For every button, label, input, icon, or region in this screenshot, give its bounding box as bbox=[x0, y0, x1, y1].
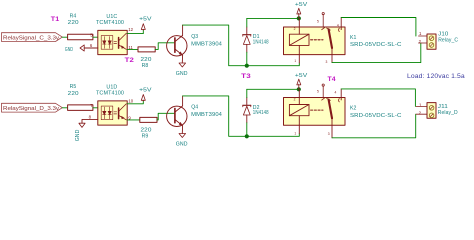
svg-text:GND: GND bbox=[65, 47, 73, 53]
svg-text:+5V: +5V bbox=[295, 2, 308, 8]
junction dot D1 anode bbox=[245, 64, 249, 68]
svg-text:2: 2 bbox=[294, 98, 296, 102]
svg-text:2: 2 bbox=[419, 111, 422, 116]
resistor R4 bbox=[68, 14, 93, 40]
opto U1D LED pair bbox=[101, 106, 113, 120]
optocoupler U1D TCMT4100 body bbox=[96, 84, 127, 125]
svg-text:4: 4 bbox=[335, 90, 337, 94]
wire D1 cathode up / anode down bbox=[246, 18, 248, 27]
relay K1 coil bbox=[289, 18, 309, 63]
svg-text:3: 3 bbox=[326, 60, 328, 64]
wire R5 to U1D pin 7 bbox=[93, 107, 98, 109]
relay K2 coil bbox=[289, 89, 309, 133]
svg-text:Q3: Q3 bbox=[191, 34, 198, 40]
junction dot D2 anode bbox=[245, 134, 249, 138]
wire K2 NO to J11 pin 1 bbox=[341, 89, 415, 107]
opto U1C light arrows bbox=[114, 41, 117, 43]
svg-text:T1: T1 bbox=[51, 16, 60, 23]
svg-text:Q4: Q4 bbox=[191, 105, 198, 111]
svg-text:+5V: +5V bbox=[295, 73, 308, 79]
svg-text:T4: T4 bbox=[328, 76, 337, 83]
relay K2 NC pin stub bbox=[322, 84, 325, 100]
pin 6 line bbox=[84, 47, 98, 49]
svg-text:3: 3 bbox=[328, 132, 330, 136]
wire label to R4 bbox=[62, 36, 67, 38]
global label RelaySignal_D_3.3v bbox=[2, 103, 63, 112]
svg-text:+5V: +5V bbox=[139, 17, 152, 23]
svg-text:SRD-05VDC-SL-C: SRD-05VDC-SL-C bbox=[350, 42, 402, 48]
wire R8 to Q3 base bbox=[155, 43, 175, 50]
svg-text:8: 8 bbox=[89, 115, 92, 120]
wire K2 common to J11 pin 2 bbox=[332, 114, 416, 138]
junction dot +5V node bbox=[297, 16, 301, 20]
power symbol +5V (top relay) bbox=[295, 2, 308, 18]
svg-text:R9: R9 bbox=[142, 133, 149, 139]
svg-text:TCMT4100: TCMT4100 bbox=[96, 20, 124, 26]
svg-text:Relay_D: Relay_D bbox=[438, 110, 458, 116]
wire D2 cathode up / anode down bbox=[246, 89, 248, 97]
relay K1 pin numbers bbox=[294, 20, 339, 64]
opto U1C LED pair bbox=[101, 36, 113, 50]
diode D2 1N4148 bbox=[243, 98, 251, 123]
wire Q4 collector to relay rail bbox=[183, 96, 300, 136]
resistor R8 bbox=[138, 47, 155, 69]
svg-text:MMBT3904: MMBT3904 bbox=[191, 112, 222, 118]
svg-text:1: 1 bbox=[419, 31, 422, 36]
svg-text:1N4148: 1N4148 bbox=[253, 39, 269, 45]
svg-text:1N4148: 1N4148 bbox=[253, 110, 269, 116]
svg-text:1: 1 bbox=[294, 131, 296, 135]
relay K2 NO pin bbox=[340, 89, 342, 100]
svg-text:T3: T3 bbox=[241, 73, 251, 80]
power symbol GND (rotated, pin 8) bbox=[75, 123, 85, 141]
wire D1 to +5V node bbox=[247, 17, 299, 19]
svg-text:R4: R4 bbox=[70, 14, 77, 20]
global label RelaySignal_C_3.3v bbox=[2, 33, 63, 42]
power symbol GND (left, pin 6) bbox=[65, 45, 84, 53]
svg-text:GND: GND bbox=[75, 129, 81, 141]
wire label to R5 bbox=[62, 107, 67, 109]
wire D2 to +5V node bbox=[247, 88, 299, 90]
relay K1 NO pin bbox=[340, 18, 342, 30]
svg-text:1: 1 bbox=[419, 103, 422, 108]
wire U1D pin 10 to +5V bbox=[127, 100, 143, 103]
power symbol +5V (bottom left) bbox=[139, 88, 152, 101]
svg-text:12: 12 bbox=[128, 27, 133, 32]
svg-text:R8: R8 bbox=[142, 63, 149, 69]
junction dot +5V node bottom bbox=[297, 87, 301, 91]
wire U1C pin 11 to R8 bbox=[127, 48, 138, 50]
relay K1 NC pin stub bbox=[322, 13, 325, 30]
svg-text:K1: K1 bbox=[350, 35, 357, 41]
diode D1 1N4148 bbox=[243, 27, 251, 52]
transistor Q3 MMBT3904 bbox=[167, 25, 187, 63]
relay K2 pin numbers bbox=[294, 90, 337, 137]
resistor R9 bbox=[140, 117, 157, 139]
power symbol GND (under Q4) bbox=[176, 134, 188, 148]
svg-text:Load: 120vac 1.5a: Load: 120vac 1.5a bbox=[407, 73, 465, 80]
connector J11 Relay_D bbox=[416, 103, 458, 119]
wire K1 common to J10 pin 2 bbox=[332, 43, 421, 63]
wire Q3 collector to relay rail bbox=[183, 25, 300, 66]
wire R9 to Q4 base bbox=[157, 113, 175, 120]
svg-text:5: 5 bbox=[317, 20, 319, 24]
power symbol GND (under Q3) bbox=[176, 63, 188, 77]
svg-text:+5V: +5V bbox=[139, 88, 152, 94]
power symbol +5V (top left) bbox=[139, 17, 152, 31]
svg-text:SRD-05VDC-SL-C: SRD-05VDC-SL-C bbox=[350, 113, 402, 119]
svg-text:5: 5 bbox=[317, 90, 319, 94]
svg-text:2: 2 bbox=[294, 27, 296, 31]
wire U1C pin 12 to +5V bbox=[127, 30, 143, 34]
relay K2 dashed link bbox=[311, 109, 323, 111]
opto U1D phototransistor bbox=[119, 104, 127, 120]
power symbol +5V (bottom relay) bbox=[295, 73, 308, 89]
resistor R5 bbox=[68, 84, 93, 110]
svg-text:T2: T2 bbox=[125, 57, 135, 64]
transistor Q4 MMBT3904 bbox=[167, 96, 187, 133]
optocoupler U1C TCMT4100 body bbox=[96, 14, 127, 55]
svg-text:J11: J11 bbox=[438, 104, 448, 110]
svg-text:10: 10 bbox=[128, 98, 133, 103]
relay K1 SRD-05VDC-SL-C body bbox=[284, 27, 402, 55]
svg-text:MMBT3904: MMBT3904 bbox=[191, 42, 222, 48]
relay K1 dashed link bbox=[311, 39, 323, 41]
svg-text:GND: GND bbox=[176, 141, 188, 147]
svg-text:RelaySignal_C_3.3v: RelaySignal_C_3.3v bbox=[3, 36, 60, 42]
svg-text:R5: R5 bbox=[70, 84, 77, 90]
relay K1 armature and common bbox=[327, 28, 333, 63]
relay K2 armature and common bbox=[327, 98, 333, 137]
svg-text:1: 1 bbox=[294, 59, 296, 63]
pin 8 line to GND bbox=[82, 119, 98, 123]
wire K1 NO to J10 pin 1 bbox=[341, 18, 416, 37]
svg-text:220: 220 bbox=[68, 20, 79, 26]
svg-text:220: 220 bbox=[68, 91, 79, 97]
svg-text:K2: K2 bbox=[350, 106, 357, 112]
connector J10 Relay_C bbox=[419, 31, 459, 50]
relay K2 SRD-05VDC-SL-C body bbox=[284, 98, 402, 126]
wire U1D pin 9 to R9 bbox=[127, 119, 140, 121]
svg-text:Relay_C: Relay_C bbox=[438, 38, 458, 44]
svg-text:RelaySignal_D_3.3v: RelaySignal_D_3.3v bbox=[3, 106, 60, 112]
svg-text:GND: GND bbox=[176, 71, 188, 77]
svg-text:11: 11 bbox=[128, 45, 133, 50]
opto U1C phototransistor bbox=[119, 33, 127, 49]
svg-text:6: 6 bbox=[90, 43, 93, 48]
svg-text:4: 4 bbox=[337, 24, 339, 28]
opto U1D light arrows bbox=[114, 112, 117, 114]
wire R4 to U1C pin 5 bbox=[93, 36, 98, 38]
svg-text:TCMT4100: TCMT4100 bbox=[96, 90, 124, 96]
